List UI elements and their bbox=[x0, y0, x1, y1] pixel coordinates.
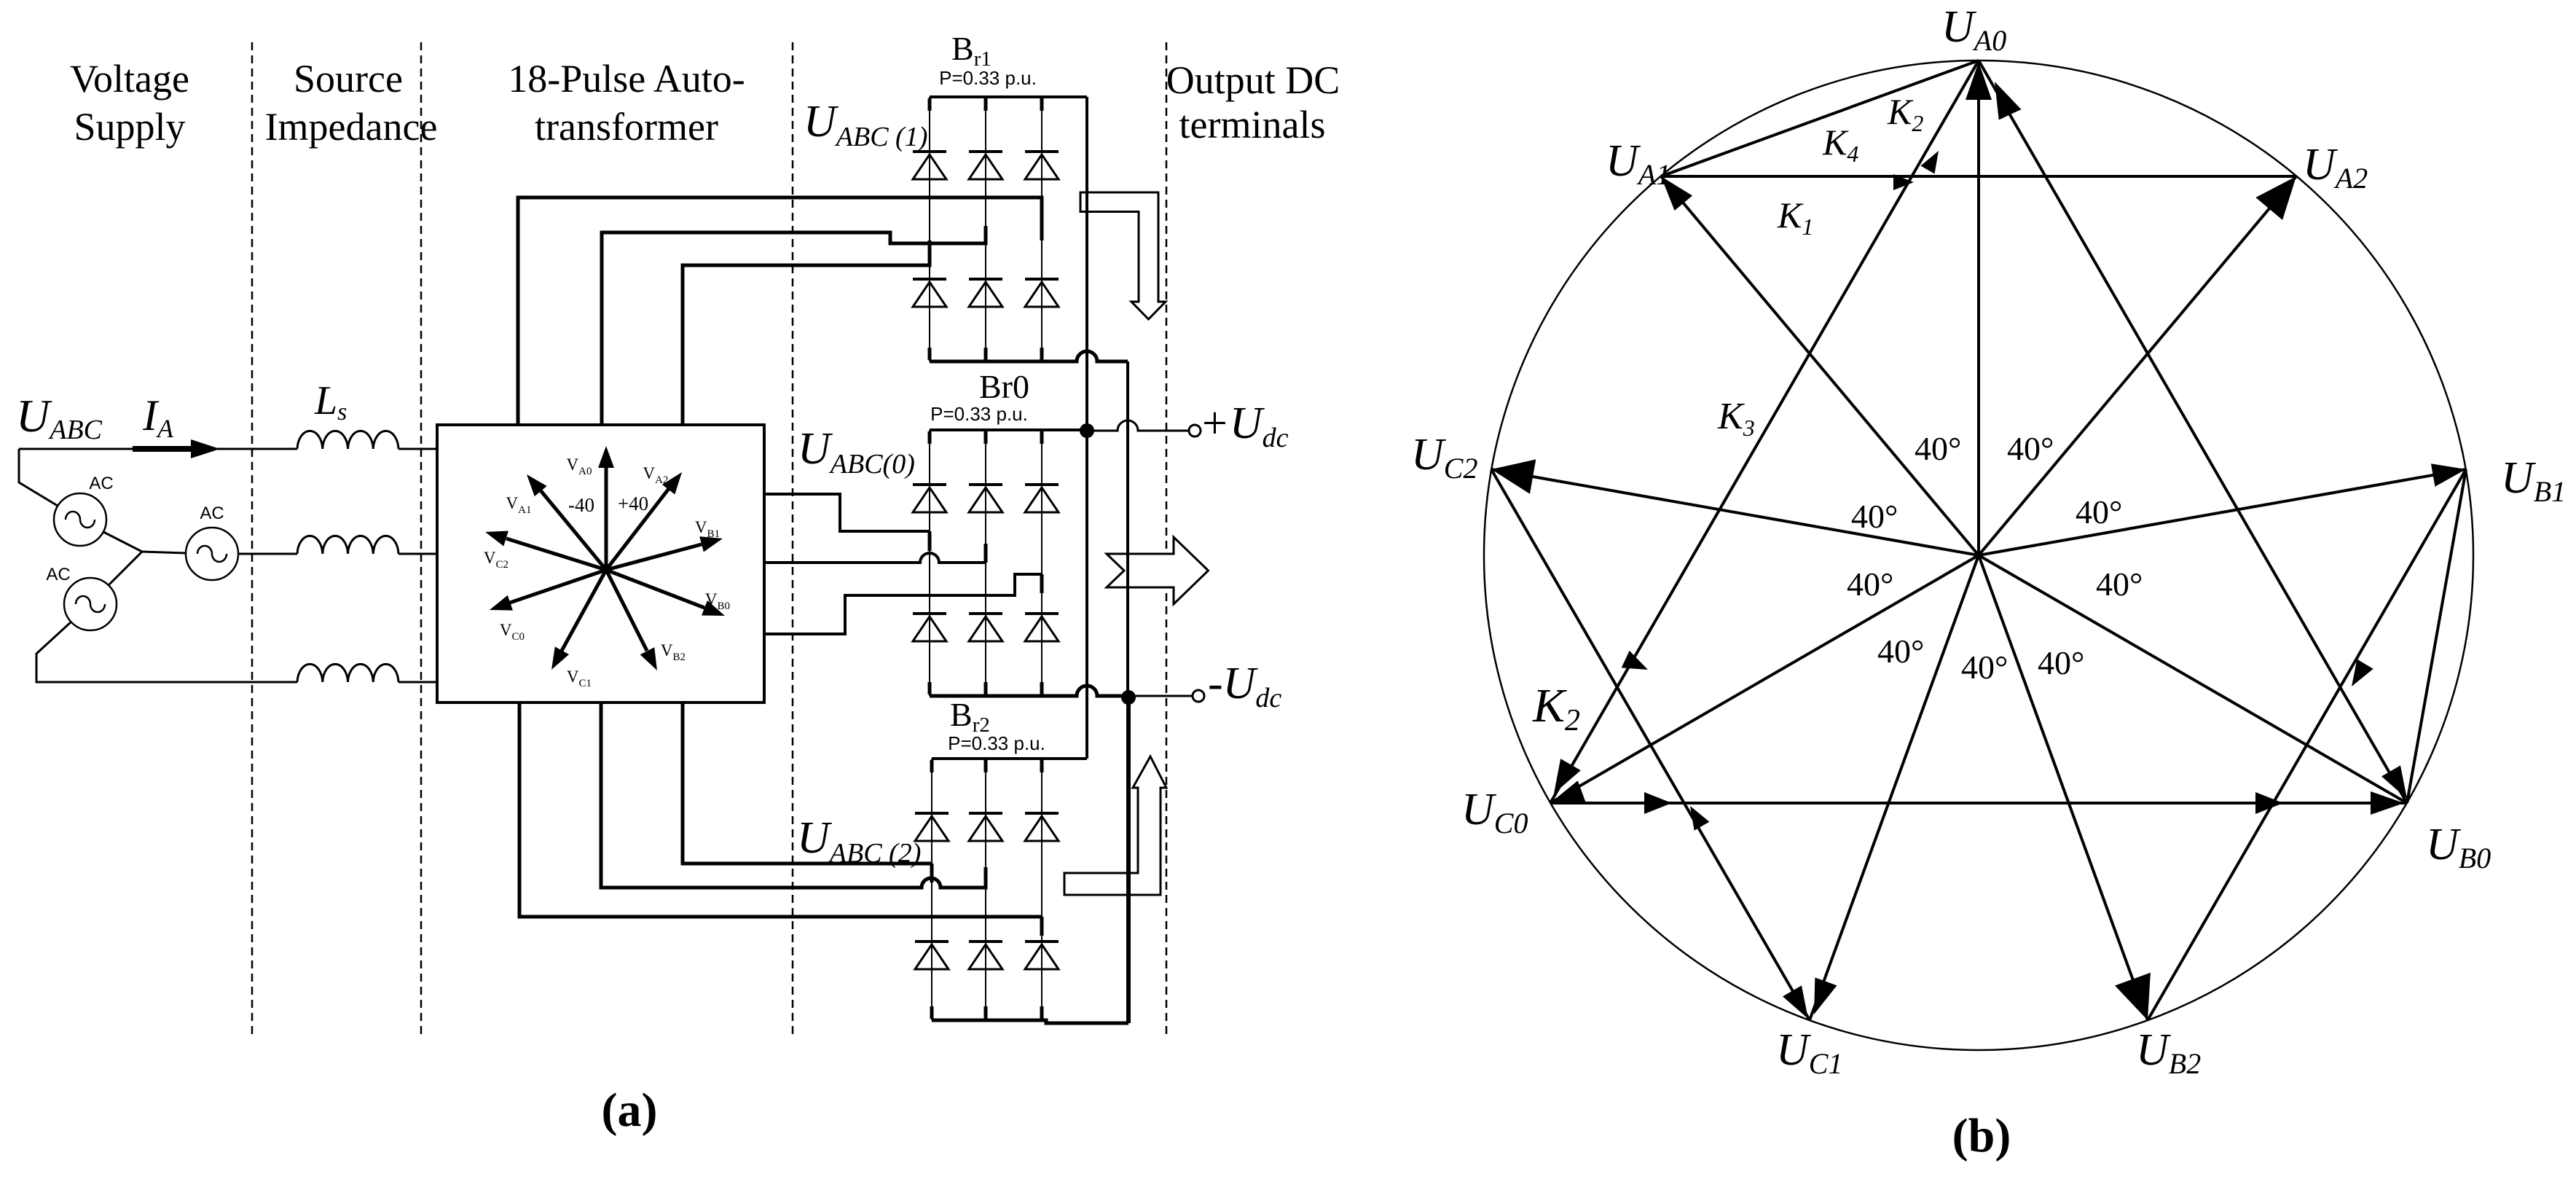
phasor U_B0 (radial) bbox=[1979, 555, 2407, 803]
-Udc rail bbox=[1128, 695, 1193, 697]
Br1 column a bbox=[929, 97, 930, 361]
-Udc open terminal bbox=[1193, 690, 1204, 702]
phasor U_C1 (radial) bbox=[1810, 555, 1979, 1020]
Br1 diode D3 bbox=[969, 152, 1002, 179]
wire neutral node to G3 bbox=[109, 552, 142, 585]
svg-text:(b): (b) bbox=[1952, 1109, 2011, 1162]
svg-text:Supply: Supply bbox=[74, 105, 185, 149]
svg-text:terminals: terminals bbox=[1179, 103, 1326, 146]
Br0 bottom rail (-) with hop over +bus bbox=[930, 686, 1128, 696]
arrowhead mid chord U_C0-U_B0 right bbox=[2255, 792, 2283, 814]
Br1 top rail (+) bbox=[930, 95, 1087, 98]
wire transformer right output 2 to Br0 phase b (hop over column a) bbox=[764, 553, 986, 563]
chord U_C2 to U_C1 bbox=[1491, 469, 1810, 1020]
phasor U_B2 (radial) bbox=[1979, 555, 2148, 1020]
Br2 top rail (+) bbox=[932, 757, 1087, 760]
Br2 bottom rail (-) bbox=[932, 1020, 1128, 1023]
AC source G2 (phase B) bbox=[186, 528, 238, 580]
phasor star inside transformer (9 vectors) bbox=[483, 446, 728, 674]
svg-text:P=0.33 p.u.: P=0.33 p.u. bbox=[939, 67, 1037, 89]
AC source G3 (phase C) bbox=[64, 578, 117, 630]
svg-text:18-Pulse Auto-: 18-Pulse Auto- bbox=[508, 57, 745, 101]
arrowhead tip U_A2 (large) bbox=[2255, 165, 2309, 220]
Br0 column a bbox=[929, 430, 930, 696]
arrowhead tip U_C2 (large) bbox=[1488, 452, 1536, 493]
+DC bus vertical (Br1+ to +Udc node to Br2+) bbox=[1085, 97, 1088, 759]
svg-text:AC: AC bbox=[89, 474, 113, 493]
-DC bus vertical (Br1- down to -Udc node and Br2-) bbox=[1126, 361, 1129, 696]
+Udc rail with hop over -bus bbox=[1087, 420, 1190, 431]
arrowhead mid chord U_B1-U_B2 bbox=[2344, 659, 2373, 691]
Br0 top rail (+) bbox=[930, 428, 1087, 431]
vector V_B1 bbox=[606, 531, 725, 570]
svg-text:Br0: Br0 bbox=[979, 368, 1029, 405]
svg-text:(a): (a) bbox=[602, 1084, 658, 1137]
phasor U_A1 (radial) bbox=[1661, 176, 1979, 555]
power-flow arrow of Br0 (hollow, right) bbox=[1107, 537, 1209, 604]
svg-text:Impedance: Impedance bbox=[265, 105, 438, 149]
chord U_B1 to U_B0 bbox=[2407, 469, 2466, 803]
junction node +Udc bbox=[1080, 423, 1094, 438]
wire transformer right output 1 to Br0 phase a bbox=[764, 494, 930, 531]
chord U_C0 to U_B0 bbox=[1550, 802, 2407, 805]
Br2 column c bbox=[1041, 759, 1042, 1020]
arrowhead tip U_B0 (horizontal chord) bbox=[2371, 791, 2404, 815]
Br1 diode D1 bbox=[913, 152, 946, 179]
Br2 diode D1 bbox=[915, 813, 949, 841]
wire transformer top output 2 to Br1 phase b bbox=[602, 226, 986, 425]
phasor circle bbox=[1484, 60, 2473, 1050]
svg-text:40°: 40° bbox=[1847, 565, 1893, 603]
wire transformer bottom output 1 to Br2 phase a bbox=[683, 702, 932, 864]
arrowhead tip U_C0 (chord from U_A0) bbox=[1544, 759, 1581, 799]
inductor Ls phase B bbox=[297, 536, 398, 554]
winding vector K1 (chord U_A1 to U_A2) bbox=[1661, 175, 2296, 178]
Br0 diode D5 bbox=[1025, 485, 1059, 512]
arrowhead tip U_B0 (chord from U_A0) bbox=[2381, 765, 2416, 804]
vector V_B2 bbox=[606, 570, 664, 674]
Br2 diode D3 bbox=[969, 813, 1002, 841]
Br0 diode D3 bbox=[969, 485, 1002, 512]
Br2 diode D2 bbox=[1025, 942, 1059, 969]
inductor Ls phase C bbox=[297, 664, 398, 682]
wire inductor B to transformer bbox=[398, 553, 437, 555]
chord U_B0 to U_A0 bbox=[1979, 60, 2407, 803]
arrowhead tip U_C0 (chord from U_B1) bbox=[1547, 780, 1586, 814]
arrowhead tip U_A0 (chord from U_B0) bbox=[1984, 77, 2022, 120]
svg-text:AC: AC bbox=[46, 565, 70, 584]
wire G3 to phase C rail bbox=[36, 622, 297, 682]
power-flow arrow of Br2 (hollow, up) bbox=[1064, 756, 1166, 895]
winding vector K4 (chord U_A1 to U_A0) bbox=[1661, 60, 1979, 176]
18-pulse autotransformer T1 (box) bbox=[437, 425, 764, 702]
phasor U_A2 (radial) bbox=[1979, 176, 2296, 555]
Br2 diode D6 bbox=[969, 942, 1002, 969]
arrowhead mid K2 (on chord U_C0-U_A0 upper) bbox=[1920, 147, 1945, 174]
wire transformer right output 3 to Br0 phase c bbox=[764, 574, 1042, 634]
zone boundary dashed line 4 (bridges / Output DC terminals) bbox=[1166, 42, 1168, 1036]
arrowhead mid chord U_C0-U_B0 left bbox=[1644, 792, 1672, 814]
arrowhead mid chord U_C2-U_C1 (up) bbox=[1683, 802, 1710, 831]
wire inductor A to transformer bbox=[398, 448, 437, 450]
+Udc open terminal bbox=[1189, 425, 1201, 437]
Br2 diode D4 bbox=[915, 942, 949, 969]
Br0 diode D4 bbox=[913, 614, 946, 641]
Br0 diode D1 bbox=[913, 485, 946, 512]
arrowhead tip U_A0 bbox=[1966, 62, 1992, 100]
Br0 column c bbox=[1041, 430, 1042, 696]
zone boundary dashed line 2 (Source Impedance / Autotransformer) bbox=[420, 42, 423, 1036]
vector V_A1 bbox=[521, 469, 606, 570]
svg-text:-40: -40 bbox=[568, 494, 594, 516]
junction node -Udc bbox=[1121, 690, 1136, 705]
vector V_C0 bbox=[487, 570, 606, 617]
wire phase A horizontal bbox=[19, 448, 297, 450]
Br1 diode D4 bbox=[913, 279, 946, 307]
svg-text:40°: 40° bbox=[1851, 498, 1898, 535]
wire neutral node to G2 bbox=[142, 552, 186, 553]
phasor U_B1 (radial) bbox=[1979, 469, 2466, 555]
svg-text:P=0.33 p.u.: P=0.33 p.u. bbox=[948, 732, 1045, 754]
Br2 column a bbox=[931, 759, 932, 1020]
arrowhead tip U_B2 (large) bbox=[2115, 973, 2165, 1027]
svg-text:Voltage: Voltage bbox=[70, 57, 189, 101]
Br2 column b bbox=[985, 759, 986, 1020]
svg-text:40°: 40° bbox=[1915, 430, 1961, 467]
inductor Ls phase A bbox=[297, 431, 398, 449]
arrowhead tip U_A1 bbox=[1652, 169, 1692, 211]
svg-text:40°: 40° bbox=[1961, 649, 2008, 686]
vector V_C2 bbox=[483, 525, 606, 570]
AC source G1 (phase A) bbox=[54, 493, 106, 546]
svg-text:transformer: transformer bbox=[535, 105, 718, 149]
svg-text:40°: 40° bbox=[2096, 565, 2143, 603]
winding vector K3 (chord U_C0 to U_A0) bbox=[1550, 60, 1979, 803]
Br0 column b bbox=[985, 430, 986, 696]
Br0 diode D2 bbox=[1025, 614, 1059, 641]
vector V_B0 bbox=[606, 570, 728, 623]
wire phase A drop to source bbox=[19, 449, 58, 506]
wire transformer bottom output 2 to Br2 phase b (hop over column a) bbox=[601, 702, 986, 888]
AC node stubs on bridge columns bbox=[930, 246, 1042, 936]
Br2 diode D5 bbox=[1025, 813, 1059, 841]
svg-text:P=0.33 p.u.: P=0.33 p.u. bbox=[930, 403, 1028, 425]
svg-text:40°: 40° bbox=[2007, 430, 2054, 467]
svg-text:AC: AC bbox=[200, 504, 224, 523]
arrowhead mid K3 (on chord U_C0-U_A0 lower, at crossing) bbox=[1622, 651, 1652, 678]
wire transformer bottom output 3 to Br2 phase c bbox=[519, 702, 1042, 917]
wire G2 to inductor bbox=[238, 553, 297, 555]
Br1 diode D6 bbox=[969, 279, 1002, 307]
svg-text:Output DC: Output DC bbox=[1166, 58, 1340, 102]
phasor U_A0 (radial) bbox=[1977, 60, 1980, 555]
phasor U_C2 (radial) bbox=[1491, 469, 1979, 555]
current arrow I_A bbox=[133, 439, 220, 458]
Br1 diode D5 bbox=[1025, 152, 1059, 179]
chord U_B1 to U_B2 bbox=[2148, 469, 2466, 1020]
Br1 bottom rail (-) with hop over +bus bbox=[930, 351, 1128, 361]
Br1 column c bbox=[1041, 97, 1042, 361]
vector V_C1 bbox=[544, 570, 606, 673]
Br0 diode D6 bbox=[969, 614, 1002, 641]
vector V_A0 bbox=[598, 446, 614, 570]
arrowhead mid K1 bbox=[1893, 174, 1914, 190]
svg-text:Source: Source bbox=[294, 57, 403, 101]
wire transformer top output 1 to Br1 phase c bbox=[518, 197, 1042, 425]
svg-text:40°: 40° bbox=[2076, 493, 2122, 531]
Br1 column stubs at rails bbox=[930, 98, 1042, 360]
Br2 column stubs at rails bbox=[932, 760, 1042, 1019]
zone boundary dashed line 3 (Autotransformer / bridges) bbox=[792, 42, 794, 1036]
arrowhead tip U_C1 (chord from U_C2) bbox=[1783, 985, 1818, 1024]
Br0 column stubs at rails bbox=[930, 431, 1042, 694]
Br1 column b bbox=[985, 97, 986, 361]
Br1 diode D2 bbox=[1025, 279, 1059, 307]
arrowhead tip U_C1 (radial) bbox=[1803, 977, 1837, 1018]
power-flow arrow of Br1 (hollow, down) bbox=[1080, 192, 1166, 319]
vector V_A2 bbox=[606, 467, 688, 570]
wire G1 to neutral node bbox=[103, 532, 142, 552]
phasor U_C0 (radial) bbox=[1550, 555, 1979, 803]
svg-text:40°: 40° bbox=[2038, 644, 2084, 681]
svg-text:40°: 40° bbox=[1877, 633, 1924, 670]
wire transformer top output 3 to Br1 phase a bbox=[683, 240, 930, 425]
arrowhead tip U_B1 bbox=[2431, 458, 2468, 487]
zone boundary dashed line 1 (Voltage Supply / Source Impedance) bbox=[251, 42, 254, 1036]
svg-text:+40: +40 bbox=[618, 493, 648, 514]
wire inductor C to transformer bbox=[398, 681, 437, 684]
